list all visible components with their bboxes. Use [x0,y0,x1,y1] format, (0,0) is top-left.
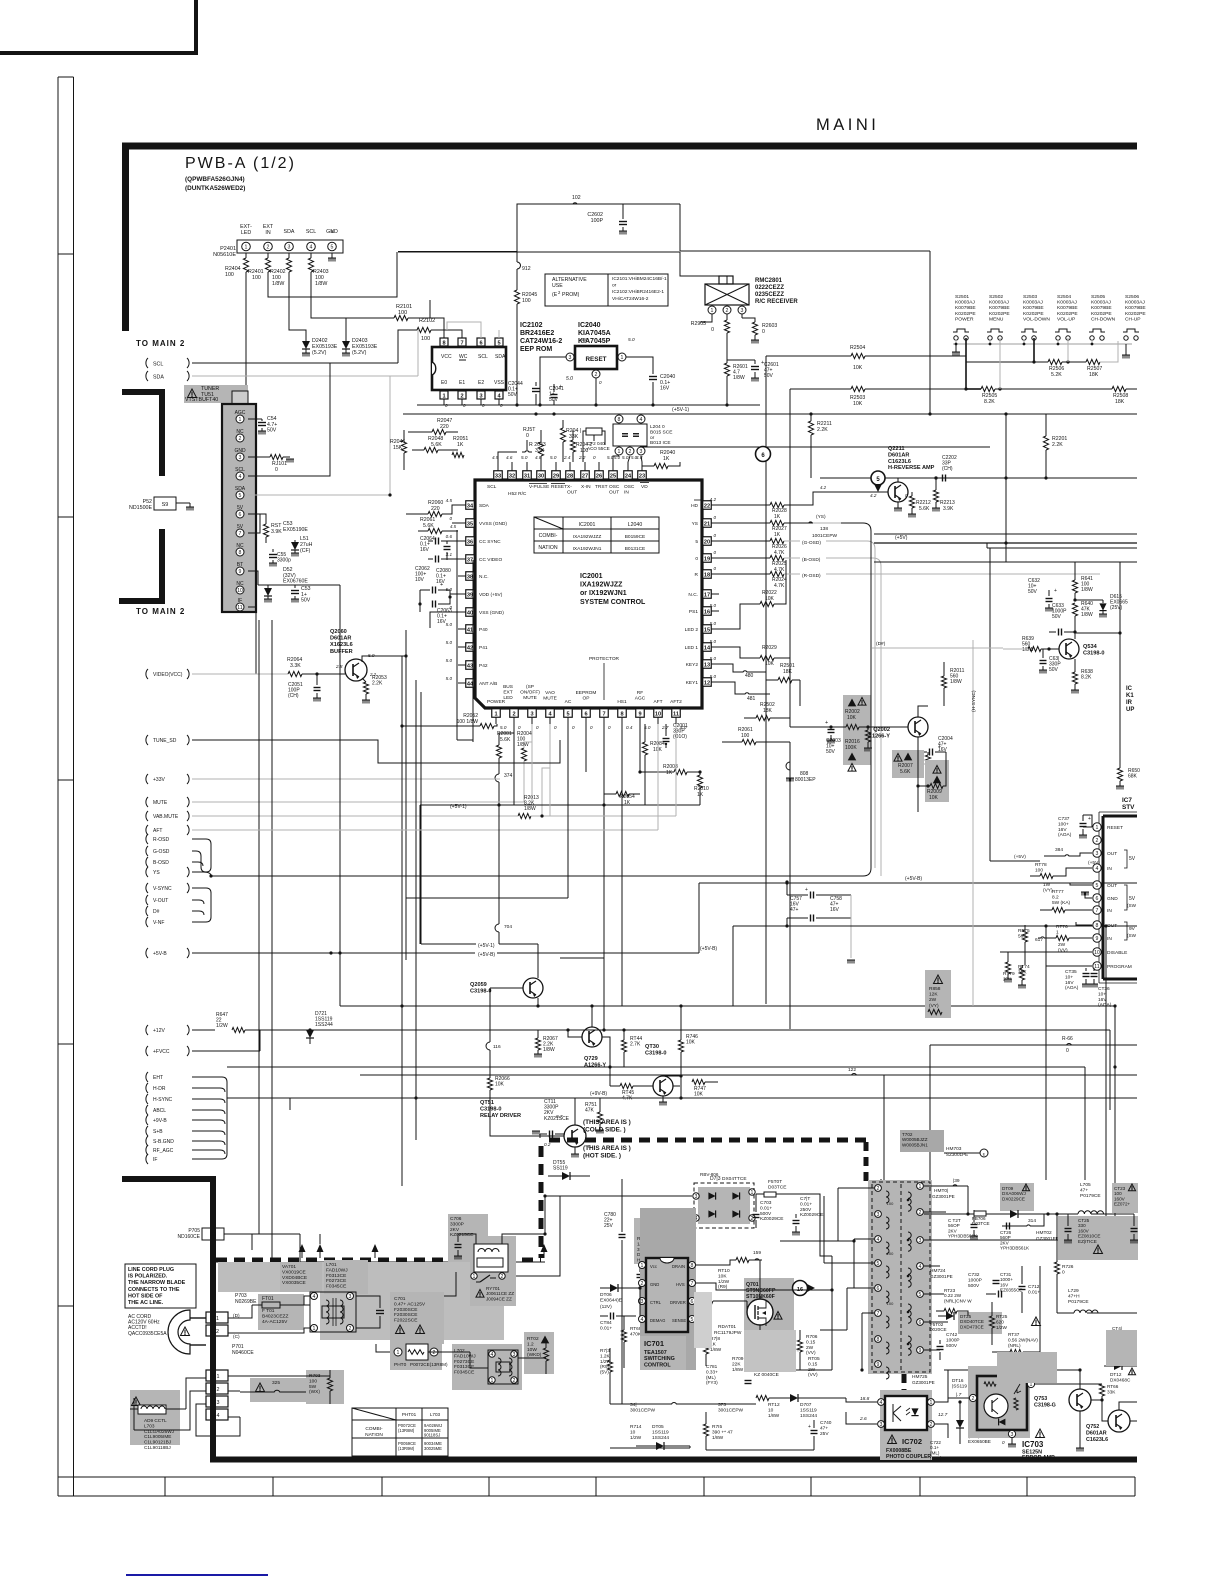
svg-text:1/8W: 1/8W [768,1413,780,1419]
resistor R2102 100 [417,318,435,342]
svg-text:500V: 500V [968,1283,980,1289]
svg-text:F T01: F T01 [262,1308,275,1314]
capacitor C633 1000P 50V [1049,603,1077,636]
svg-text:H-DR: H-DR [153,1086,166,1092]
svg-text:IC2001: IC2001 [580,573,603,580]
resistor R710 10K 1/2W (R9) [696,1257,760,1290]
svg-text:2.7: 2.7 [661,725,669,730]
wire q2060 collector [362,654,408,662]
pointer 16 [742,1260,815,1312]
svg-text:MUTE: MUTE [543,695,557,701]
svg-text:(CF): (CF) [300,548,311,554]
wire HD net [719,485,888,505]
svg-text:V-NF: V-NF [153,920,164,926]
svg-text:RT77: RT77 [1052,889,1064,895]
svg-text:CONTROL: CONTROL [644,1362,671,1368]
resistor RT45 4.7K [610,1067,653,1102]
resistor R2004 100 1/8W [517,724,532,802]
svg-text:1SS119: 1SS119 [652,1429,669,1435]
svg-text:+12V: +12V [153,1028,165,1034]
resistor R718 1K 1/8W [703,1319,721,1366]
svg-text:IN: IN [1107,936,1112,942]
svg-text:R2102: R2102 [419,318,435,324]
resistor RT37 0.56 2W [992,1332,1040,1355]
svg-text:F2030SCE: F2030SCE [394,1312,417,1318]
ac cord label [128,1314,190,1337]
svg-text:(COLD SIDE. ): (COLD SIDE. ) [583,1127,626,1134]
svg-text:K0003AJ: K0003AJ [1057,300,1077,306]
wire ac to bridge lower [401,1179,403,1186]
svg-text:3: 3 [513,1352,516,1358]
svg-text:IC702: IC702 [902,1437,922,1446]
svg-text:(B-OSD): (B-OSD) [802,557,821,563]
capacitor C2602 100P [587,204,627,235]
resistor RJ101 0 [248,454,294,473]
svg-text:HS1: HS1 [617,699,627,705]
svg-text:1/8W: 1/8W [950,679,962,685]
svg-text:3001CEPW: 3001CEPW [630,1407,656,1413]
svg-text:R2504: R2504 [850,345,865,351]
svg-text:2.2K: 2.2K [372,681,383,687]
transistor Q752 D601AR C1623L6 [1086,1410,1130,1443]
svg-text:RT78: RT78 [1035,862,1047,868]
wire fuse to filter [228,1296,310,1333]
svg-text:K0202PE: K0202PE [1125,311,1146,317]
svg-text:6: 6 [584,711,587,717]
wire pin10 down [657,724,659,805]
svg-text:V-PULSE: V-PULSE [529,484,549,490]
svg-text:(E: (E [552,292,558,298]
svg-text:RC1179JPW: RC1179JPW [714,1330,742,1336]
svg-text:16V: 16V [1065,980,1074,986]
svg-text:15: 15 [704,627,710,633]
svg-text:5.0: 5.0 [521,455,528,460]
transformer T702 shade [868,1180,932,1374]
resistor R2508 18K [1112,386,1128,405]
svg-text:1K: 1K [774,532,781,538]
svg-text:+: + [559,384,562,390]
svg-text:10: 10 [1094,950,1100,956]
svg-text:BR2416E2: BR2416E2 [520,330,554,337]
svg-text:1: 1 [245,245,248,251]
left connector stubs [146,669,183,1164]
resistor R2067 2.2K 1/8W [534,1030,558,1058]
svg-text:1: 1 [442,393,445,399]
svg-text:+: + [938,744,941,750]
wire YS long [192,523,871,878]
svg-text:GZ3001PE: GZ3001PE [932,1194,955,1199]
svg-text:7: 7 [1096,908,1099,914]
capacitor C632 10+ 50V [1028,578,1057,612]
svg-text:S2501: S2501 [955,294,969,300]
svg-text:S2503: S2503 [1023,294,1037,300]
svg-text:13: 13 [704,662,710,668]
svg-text:22: 22 [704,503,710,509]
svg-text:RESET: RESET [551,484,567,490]
jumper 480 [719,664,766,679]
wire x499 to +5V-1 [498,806,500,924]
wire YS net gray [719,514,841,539]
svg-text:1/8W: 1/8W [1081,587,1093,593]
svg-text:R: R [695,572,699,578]
svg-text:1: 1 [751,1190,754,1196]
svg-text:C1L9005IME: C1L9005IME [144,1434,171,1439]
svg-text:(5.2V): (5.2V) [352,350,367,356]
svg-text:C1L90118BJ: C1L90118BJ [144,1445,171,1450]
svg-text:16V: 16V [830,907,840,913]
svg-text:16V: 16V [1098,997,1107,1003]
wire q701 drain [696,1283,834,1299]
svg-text:47+: 47+ [790,907,799,913]
svg-text:20: 20 [704,539,710,545]
svg-text:5: 5 [691,1317,694,1323]
svg-text:1K: 1K [666,770,673,776]
svg-text:80013EP: 80013EP [795,777,816,783]
svg-text:SWITCHING: SWITCHING [644,1356,675,1362]
svg-text:42: 42 [467,645,473,651]
wire r2008-r2010 link [698,770,701,773]
svg-text:N0269BE: N0269BE [235,1299,257,1305]
jumper 374 [495,770,513,806]
cold side label [583,1119,631,1134]
svg-text:4.5: 4.5 [446,498,453,503]
svg-text:SDA: SDA [479,503,490,509]
svg-text:5.0: 5.0 [710,621,717,626]
svg-text:7: 7 [602,711,605,717]
svg-text:1: 1 [473,1274,476,1280]
svg-text:33K: 33K [569,434,579,440]
wire SDA net down [289,272,306,341]
jumper 481 [719,682,770,702]
wire SDA vertical gray [417,330,419,376]
svg-text:IXA192WJZZ: IXA192WJZZ [573,534,602,540]
wire q534 out [1075,562,1122,640]
svg-text:100: 100 [252,275,261,281]
svg-text:3: 3 [1096,851,1099,857]
svg-text:50V: 50V [267,428,277,434]
svg-text:R/C RECEIVER: R/C RECEIVER [755,299,798,305]
svg-text:5: 5 [695,539,698,545]
resistor R2084 10K [642,724,665,765]
svg-text:RT76: RT76 [1056,924,1068,930]
svg-text:122: 122 [848,1067,856,1073]
svg-text:OSC: OSC [609,484,620,490]
svg-text:3: 3 [239,455,242,461]
wire reset out [540,357,653,405]
svg-text:ND1500E: ND1500E [129,505,152,511]
svg-text:IC7: IC7 [1122,797,1132,804]
svg-text:(FY3): (FY3) [706,1380,718,1385]
wire program pin [1046,952,1092,966]
svg-text:C781: C781 [706,1364,718,1369]
wire +5V to reg [990,854,1100,866]
wire cold bus A [271,1179,273,1262]
ac plug symbol [168,1310,206,1354]
diode D2402 EX05193E (5.2V) [302,330,338,357]
svg-text:PS1: PS1 [689,609,698,615]
resonator CF2040 ACO 55CE [583,428,610,462]
capacitor C706 3300P 2KV [448,1214,488,1262]
resistor R726 0 [1054,1214,1073,1313]
svg-text:(CH): (CH) [288,693,299,699]
label HM725 GZ3001PE [912,1374,935,1385]
svg-text:36: 36 [467,539,473,545]
svg-text:8: 8 [877,1337,880,1343]
svg-text:Q2060: Q2060 [330,629,347,635]
svg-text:220: 220 [440,424,449,430]
svg-text:1/8W: 1/8W [315,281,327,287]
diode D721 1SS119 1SS244 [306,1011,538,1044]
svg-text:0.56 2W(NAV): 0.56 2W(NAV) [1008,1337,1038,1342]
svg-text:R2029: R2029 [762,645,777,651]
capacitor CT36 10u 16V [1090,968,1112,1008]
capacitor CT2T 56OP 2KV YPH3DB561K [948,1210,978,1240]
diode near ic702 [956,1400,964,1444]
resistor R2213 3.9K [932,476,955,512]
resistor R2001 5.6K [496,724,514,770]
svg-text:100: 100 [887,1251,894,1256]
wire EXT-IN [268,252,397,297]
wire ic703 pin3 gnd [1008,1438,1016,1448]
resistor R2060 220 [406,500,458,517]
svg-text:EX0650BE: EX0650BE [968,1439,991,1444]
svg-text:6: 6 [691,1299,694,1305]
svg-text:(VV): (VV) [806,1350,816,1356]
wire y478 long [820,477,1137,479]
bus y1067 [227,1065,1117,1068]
wire y447 long [640,446,990,448]
resistor R2054 1K [604,791,640,806]
svg-text:SDA: SDA [495,354,506,360]
svg-text:3: 3 [1011,1432,1014,1438]
svg-text:THE AC LINE.: THE AC LINE. [128,1300,164,1306]
svg-text:(WKD): (WKD) [527,1352,542,1358]
svg-text:TRST: TRST [595,484,608,490]
svg-text:1/8W: 1/8W [272,281,284,287]
svg-text:IN: IN [265,230,270,236]
svg-text:LED 1: LED 1 [685,645,699,651]
svg-text:K0079BE: K0079BE [1125,305,1146,311]
capacitor C73N 7200P 1.6KV [761,1330,799,1370]
board title PWB-A (1/2) [185,155,296,172]
wire horizontal bus y251 [398,251,930,252]
svg-text:+: + [1054,588,1057,594]
svg-text:17: 17 [704,592,710,598]
diode D53 EX05190E [283,521,308,557]
svg-text:DT12: DT12 [1110,1372,1122,1377]
svg-text:C1623L6: C1623L6 [1086,1437,1108,1443]
svg-text:2W: 2W [929,997,937,1003]
svg-text:B015 SCE: B015 SCE [650,429,672,435]
svg-text:5.0: 5.0 [566,376,573,382]
long vertical x416 [415,680,417,1140]
svg-text:RT02: RT02 [527,1336,539,1342]
capacitor C2601 47+ 50V [727,360,779,382]
svg-text:2W: 2W [806,1345,814,1351]
svg-text:10K: 10K [694,1092,704,1098]
resistor R25 325 [240,1378,306,1402]
diode DT16 1SS119 [948,1378,967,1392]
svg-text:VOL-UP: VOL-UP [1057,316,1075,322]
svg-text:8.2K: 8.2K [984,399,995,405]
wire ic701 bottom [610,1248,690,1448]
svg-text:B4023CEZZ: B4023CEZZ [262,1313,288,1319]
svg-text:12K: 12K [929,992,938,998]
resistor R2502 18K [744,702,790,721]
wire q2059 collector [537,944,539,978]
bus y1030b [538,1028,1110,1031]
svg-text:0: 0 [599,380,602,385]
svg-text:90118SJ: 90118SJ [424,1433,440,1438]
svg-text:4.7K: 4.7K [622,1096,633,1102]
svg-text:IC2101:VHiBM24C16B/-1: IC2101:VHiBM24C16B/-1 [612,276,667,282]
svg-text:37: 37 [467,557,473,563]
wire x568 pin5 to bus [567,812,569,898]
wire reset gnd [595,378,597,405]
svg-text:100+: 100+ [1058,821,1069,827]
svg-text:EXT: EXT [503,689,512,695]
resistor R638 8.2K [1071,659,1093,694]
svg-text:39: 39 [467,592,473,598]
schematic bottom border [210,1457,1137,1463]
long vertical x406 [405,630,407,960]
svg-text:L703: L703 [430,1412,441,1417]
tuner pins [234,410,246,611]
svg-text:100: 100 [741,733,750,739]
svg-text:1/2W: 1/2W [216,1023,228,1029]
svg-text:0: 0 [713,550,716,555]
svg-text:CH-DOWN: CH-DOWN [1091,316,1116,322]
svg-text:0.33+: 0.33+ [706,1369,718,1374]
label HM724 GZ3001PE [930,1268,953,1279]
svg-text:K0003AJ: K0003AJ [1091,300,1111,306]
resistor R2402 100 1/8W [270,253,292,287]
svg-text:2KV: 2KV [450,1227,460,1233]
eht stub bus [192,1077,227,1159]
svg-text:35: 35 [467,521,473,527]
resistor R641 100 1/8W [1072,562,1093,600]
svg-text:VIDEO(VCC): VIDEO(VCC) [153,672,183,678]
wires bottom right edge [1039,1266,1041,1342]
svg-text:2.6: 2.6 [859,1416,867,1422]
svg-text:16V: 16V [660,386,670,392]
long vertical x402 [400,656,403,1179]
svg-text:18K: 18K [783,669,793,675]
svg-text:P 2: P 2 [211,1329,219,1335]
mosfet Q701 [744,1278,794,1330]
capacitor C55 3300p [269,549,291,567]
svg-text:HVS: HVS [676,1282,685,1287]
svg-text:(QPWBFA526GJN4): (QPWBFA526GJN4) [185,176,245,183]
svg-text:9: 9 [919,1348,922,1354]
svg-text:0: 0 [713,533,716,538]
svg-text:SCL: SCL [478,354,488,360]
svg-text:5.0: 5.0 [628,337,635,343]
svg-text:PROGRAM: PROGRAM [1107,964,1132,970]
svg-text:D601AR: D601AR [888,452,909,458]
wire y898 U link [406,897,568,899]
resistor R2201 2.2K [1043,414,1067,480]
IC2001 name [580,573,646,606]
diode DT05 [636,1442,690,1450]
diode DT55 SS119 [548,1160,590,1180]
clipped IC label right [1126,686,1134,713]
svg-text:390 +* 47: 390 +* 47 [712,1429,733,1435]
svg-text:VX0035CE: VX0035CE [282,1280,306,1286]
svg-text:2: 2 [641,1281,644,1287]
wire x473 long [457,560,473,742]
svg-text:RESET: RESET [586,356,607,363]
svg-text:4: 4 [1096,866,1099,872]
wire q2059 base [490,988,523,1042]
wire x1006 +5V drop [1004,412,1007,562]
svg-text:5.0: 5.0 [622,455,629,460]
svg-text:0: 0 [905,493,908,498]
wire +5V-B line [192,951,475,954]
svg-text:6: 6 [239,512,242,518]
svg-text:10K: 10K [765,596,775,602]
svg-text:18K: 18K [1115,399,1125,405]
svg-text:CTRL: CTRL [650,1300,662,1305]
resistor RT02 1.2 10W [524,1332,554,1374]
svg-text:18K: 18K [763,708,773,714]
svg-text:7: 7 [691,1281,694,1287]
capacitor C2044 0.1+ 50V [508,381,540,405]
svg-text:0: 0 [695,556,698,562]
svg-text:1/8W: 1/8W [732,1367,744,1373]
wire eht bus to right [227,1097,290,1099]
svg-text:0.01+: 0.01+ [760,1205,772,1211]
svg-text:6: 6 [479,340,482,346]
svg-text:34|: 34| [630,1402,637,1408]
resistor R2002 10K [846,724,859,729]
vsync stub bus [192,888,211,922]
svg-text:GZ3001PE: GZ3001PE [1036,1236,1059,1241]
wire verticals right mid [1046,925,1106,1240]
svg-text:4.7K: 4.7K [774,583,785,589]
transformer mid taps [0,0,1,1]
wire top net 102 [517,195,680,252]
svg-text:1/2W: 1/2W [630,1435,642,1441]
svg-text:(HOT SIDE. ): (HOT SIDE. ) [583,1153,621,1160]
svg-text:5W: 5W [309,1384,317,1390]
long vertical x421 [420,692,422,944]
svg-text:8: 8 [618,417,621,423]
svg-text:IC701: IC701 [644,1339,664,1348]
svg-text:1K: 1K [457,442,464,448]
connector stub SCL [146,358,398,368]
svg-text:N.C.: N.C. [688,592,698,598]
svg-text:Q2059: Q2059 [470,982,487,988]
svg-text:1000P: 1000P [946,1337,960,1342]
svg-text:B0131CE: B0131CE [625,546,646,552]
svg-text:EX06760E: EX06760E [283,579,308,585]
svg-text:IC: IC [1126,686,1133,692]
label RDAT01 RC1179JPW [714,1324,742,1336]
bus y1006 [340,1004,1117,1007]
resistor R2044 15K [390,430,407,470]
svg-text:RT25: RT25 [996,1314,1008,1319]
resistor R705 0.15 2W [808,1356,820,1378]
svg-text:1SS244: 1SS244 [315,1022,333,1028]
transistor Q2211 [867,482,908,512]
wire AFT [192,829,480,831]
filter L701 labels [324,1260,368,1294]
svg-text:4A-AC125V: 4A-AC125V [262,1319,288,1325]
svg-text:0.4: 0.4 [626,725,633,730]
svg-text:2: 2 [433,1350,436,1356]
svg-text:5.0: 5.0 [500,725,507,730]
